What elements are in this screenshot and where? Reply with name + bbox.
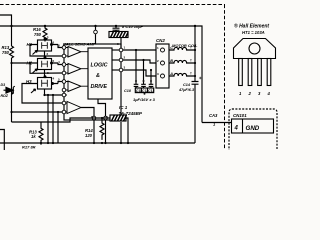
svg-text:3: 3 bbox=[157, 72, 159, 76]
wire R17 to pin bbox=[120, 38, 122, 49]
hall element leg 1 bbox=[239, 59, 243, 86]
svg-text:R17 8R: R17 8R bbox=[22, 145, 36, 150]
hall sensor H1 bbox=[27, 38, 59, 58]
op-amp A2 bbox=[66, 64, 88, 75]
wire H1 left loop bbox=[30, 45, 62, 57]
svg-text:B: B bbox=[170, 59, 173, 63]
svg-text:3: 3 bbox=[124, 66, 126, 70]
svg-text:IC 1: IC 1 bbox=[119, 105, 128, 110]
resistor R17 box lower bbox=[110, 115, 127, 121]
svg-text:&: & bbox=[96, 73, 100, 79]
hall sensor H2 bbox=[27, 57, 59, 78]
svg-text:5: 5 bbox=[58, 78, 60, 82]
wire box to v128 bbox=[126, 118, 128, 143]
connector CN101 bbox=[229, 109, 277, 154]
wire bus A bbox=[12, 118, 111, 122]
svg-text:1: 1 bbox=[47, 35, 49, 39]
svg-text:1: 1 bbox=[124, 46, 126, 50]
svg-text:2: 2 bbox=[248, 91, 252, 96]
op-amp A3 bbox=[66, 81, 88, 92]
zener diode D3 bbox=[1, 83, 15, 98]
svg-text:T: T bbox=[190, 59, 192, 63]
node output junctions bbox=[135, 49, 152, 71]
svg-text:LOGIC: LOGIC bbox=[91, 63, 108, 69]
wire output U bbox=[112, 49, 119, 51]
svg-text:1: 1 bbox=[239, 91, 242, 96]
svg-text:DRIVE: DRIVE bbox=[91, 84, 108, 90]
logic block bbox=[88, 48, 112, 99]
svg-text:750: 750 bbox=[34, 32, 42, 37]
wire left rail bbox=[12, 26, 63, 122]
pin number specks CN2 bbox=[157, 46, 192, 77]
wire output W bbox=[112, 69, 119, 71]
dashed border top bbox=[0, 4, 225, 6]
svg-text:5: 5 bbox=[53, 59, 55, 63]
node bus B junctions bbox=[40, 94, 129, 144]
connector stub bottom-left bbox=[0, 130, 4, 151]
svg-text:CN2: CN2 bbox=[156, 38, 165, 43]
svg-text:CA3: CA3 bbox=[209, 113, 218, 118]
svg-text:4: 4 bbox=[267, 91, 271, 96]
resistor R17 box bbox=[109, 32, 128, 38]
connector CN2 bbox=[156, 38, 169, 88]
svg-text:1k: 1k bbox=[31, 134, 36, 139]
svg-text:2: 2 bbox=[47, 52, 49, 56]
hall sensor H3 bbox=[26, 76, 58, 95]
hall element package body bbox=[234, 39, 276, 59]
wire H1 right out bbox=[58, 45, 62, 48]
svg-text:750: 750 bbox=[2, 50, 10, 55]
op-amp block IC1 outline bbox=[64, 44, 121, 120]
wire H2 right out bbox=[58, 63, 62, 65]
node rail junctions bbox=[194, 49, 196, 77]
hall element leg 3 bbox=[258, 59, 262, 86]
capacitor C10 bbox=[113, 24, 144, 32]
svg-text:A: A bbox=[169, 72, 173, 76]
dashed border right bbox=[224, 5, 226, 151]
capacitor C12 bbox=[141, 60, 146, 88]
svg-text:C10: C10 bbox=[124, 89, 132, 93]
svg-text:6: 6 bbox=[53, 41, 55, 45]
inductor coil A phase bbox=[169, 73, 195, 76]
capacitor C11 bbox=[134, 50, 139, 88]
svg-text:D3: D3 bbox=[1, 83, 6, 87]
svg-text:4: 4 bbox=[58, 60, 60, 64]
wire H3 right out bbox=[58, 82, 62, 84]
svg-text:1µF/16V x 3: 1µF/16V x 3 bbox=[133, 97, 156, 102]
svg-text:C13: C13 bbox=[148, 89, 154, 93]
svg-text:3: 3 bbox=[258, 91, 261, 96]
op-amp A4 bbox=[66, 95, 81, 114]
wire top-left stub bbox=[0, 15, 12, 26]
wire hall drop 2 bbox=[57, 112, 59, 143]
wire IC right edge down bbox=[120, 122, 122, 143]
svg-text:4: 4 bbox=[234, 126, 239, 132]
svg-text:4: 4 bbox=[53, 77, 55, 81]
pin circles IC1 right bbox=[119, 48, 123, 72]
wire hall chain bottom to pin bbox=[45, 94, 63, 96]
capacitor C14 bbox=[178, 77, 201, 92]
svg-text:2: 2 bbox=[157, 59, 159, 63]
resistor R15 bbox=[29, 122, 43, 145]
svg-text:HALL SENS AMP: HALL SENS AMP bbox=[63, 42, 96, 47]
label capacitors C11 C12 C13 bbox=[124, 88, 154, 95]
wire output V bbox=[112, 59, 119, 61]
pin number specks bbox=[47, 35, 126, 119]
pin IC1 Vcc bbox=[95, 26, 97, 44]
svg-text:8 C10 10µF: 8 C10 10µF bbox=[122, 24, 144, 29]
svg-text:1: 1 bbox=[157, 46, 159, 50]
svg-text:120: 120 bbox=[85, 133, 93, 138]
pin numbers bbox=[239, 91, 271, 96]
wire hall drop 1 bbox=[47, 95, 49, 143]
hall element leg 2 bbox=[248, 59, 252, 86]
resistor R13 bbox=[10, 46, 14, 58]
svg-text:T: T bbox=[190, 46, 192, 50]
inductor coil B phase bbox=[169, 60, 195, 63]
svg-text:HT1 = 103A: HT1 = 103A bbox=[242, 30, 265, 35]
svg-text:RDZ: RDZ bbox=[1, 94, 9, 98]
wire coil common rail bbox=[194, 26, 196, 143]
wire H3 left loop bbox=[22, 84, 62, 104]
svg-text:3: 3 bbox=[58, 44, 60, 48]
node left rail junction bbox=[10, 89, 12, 91]
inductor coil C phase bbox=[169, 47, 195, 50]
wire H2 left loop bbox=[12, 62, 31, 64]
svg-text:GND: GND bbox=[246, 125, 260, 132]
svg-text:® Hall Element: ® Hall Element bbox=[234, 23, 269, 30]
pin circles IC1 bottom bbox=[92, 116, 107, 120]
wire main V+ bus bbox=[0, 26, 202, 123]
hall element leg 4 bbox=[267, 59, 271, 86]
resistor R16 bbox=[43, 26, 47, 42]
capacitor C13 bbox=[149, 70, 154, 88]
wire A4 output bbox=[81, 108, 94, 117]
op-amp A1 bbox=[66, 47, 88, 58]
wire bottom pins down bbox=[93, 120, 95, 143]
pin circles IC1 left bbox=[62, 46, 66, 114]
node bus junctions bbox=[10, 25, 196, 27]
svg-text:2: 2 bbox=[124, 56, 126, 60]
svg-text:47µF/6.3: 47µF/6.3 bbox=[178, 88, 195, 92]
wire ground bus B bbox=[0, 142, 195, 144]
svg-text:C14: C14 bbox=[183, 83, 191, 87]
wire CA3 to CN101 bbox=[202, 122, 232, 124]
svg-text:CN101: CN101 bbox=[233, 113, 247, 118]
resistor R14 bbox=[85, 118, 104, 140]
node hall bottom junctions bbox=[10, 62, 54, 96]
svg-text:T: T bbox=[190, 72, 192, 76]
hall element package hole bbox=[249, 43, 260, 54]
wire logic bottom route bbox=[98, 99, 106, 116]
